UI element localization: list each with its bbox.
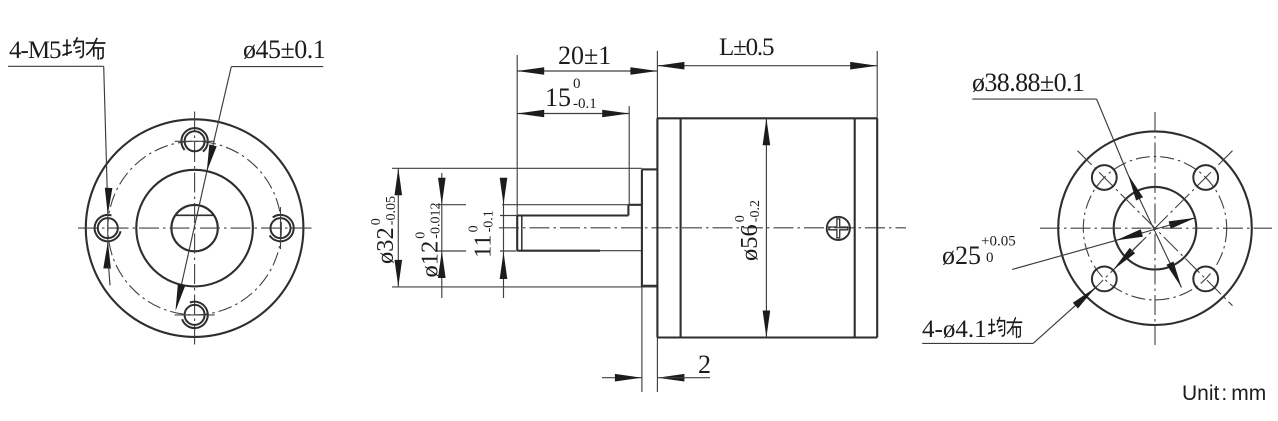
right view diagonal centerline NE-SW: [1078, 151, 1233, 306]
flange-body joint line: [680, 118, 682, 337]
left view pilot boss circle ø32: [136, 170, 253, 287]
label 4-ø4.1 arrow at hole SW edge: [1073, 288, 1096, 309]
left view M5 hole W centermark: [107, 207, 109, 249]
dim ø56 line: [765, 118, 767, 337]
shaft tip end face: [516, 216, 518, 251]
left view bolt circle ø45 (dash-dot): [108, 141, 282, 315]
svg-text:ø25: ø25: [942, 241, 981, 270]
dim 2 right tail: [657, 377, 710, 379]
label ø45 arrow on boss circle: [207, 144, 217, 171]
label 4-ø4.1 leader line: [1033, 288, 1095, 344]
svg-text:15: 15: [545, 83, 571, 112]
body rear joint line: [854, 118, 856, 337]
dim ø12 line: [441, 173, 443, 298]
left view shaft flat chord: [176, 214, 214, 216]
label ø25 text: [942, 234, 1016, 271]
svg-text:ø45±0.1: ø45±0.1: [243, 35, 325, 64]
shaft flat top edge: [517, 214, 628, 216]
dim 15 right arrow: [602, 110, 629, 118]
svg-text:4-ø4.1: 4-ø4.1: [922, 316, 987, 343]
dim L right arrow: [850, 62, 877, 70]
screw head circle: [827, 217, 850, 240]
left view M5 hole S centermark: [175, 314, 215, 316]
right view bolt circle ø38.88 (dash-dot): [1083, 157, 1226, 300]
label 4-M5 leader line: [104, 66, 108, 193]
dim 11 text: [467, 210, 497, 258]
shaft top edge at root: [628, 204, 642, 206]
boss face extension down (for 2 dim): [641, 288, 643, 393]
shaft flat step: [627, 205, 629, 216]
svg-text:0: 0: [467, 225, 482, 232]
left view M5 hole E thread arc: [270, 215, 294, 241]
svg-text:Unit:mm: Unit:mm: [1182, 382, 1266, 405]
left view M5 hole N thread arc: [181, 128, 207, 151]
shaft tip chamfer line: [521, 216, 523, 250]
label ø25 dimension line: [1116, 218, 1196, 241]
svg-text:ø38.88±0.1: ø38.88±0.1: [972, 68, 1084, 97]
screw head phillips cross: [829, 219, 848, 238]
dim ø32 line: [397, 168, 399, 287]
dim 11 line: [503, 178, 505, 298]
left view M5 hole N centermark: [175, 140, 215, 142]
label ø38.88 upper arrow: [1128, 175, 1143, 201]
right view ø4.1 hole NE: [1193, 165, 1218, 190]
dim 15 line: [517, 113, 629, 115]
label ø45 leader underline: [231, 66, 323, 68]
ext line ø12 top short: [436, 204, 466, 206]
flange face extension up: [656, 51, 658, 118]
left view M5 hole S thread arc: [182, 302, 208, 328]
left view vertical centerline: [194, 112, 196, 345]
ext line shaft tip vertical: [516, 55, 518, 216]
left view M5 hole S minor circle: [185, 305, 205, 325]
svg-text:2: 2: [698, 350, 711, 379]
dim 2 left arrow: [615, 374, 642, 382]
label 4-M5 arrow at hole top: [105, 188, 113, 215]
label ø38.88 dimension line: [1128, 175, 1182, 288]
dim ø32 bottom arrow: [395, 260, 403, 287]
svg-text:L±0.5: L±0.5: [719, 34, 774, 61]
dim 15 text: [545, 76, 597, 112]
ext line ø12 bottom short: [436, 250, 466, 252]
label 4-M5 arrow at hole bottom: [103, 242, 111, 269]
dim L left arrow: [657, 62, 684, 70]
dim 2 right arrow: [657, 374, 684, 382]
dim 2 left tail: [602, 377, 642, 379]
dim ø32 top arrow: [395, 168, 403, 195]
label 4-M5 leader underline: [8, 65, 104, 67]
right view bore circle ø25: [1114, 187, 1197, 270]
body bottom edge: [657, 336, 877, 338]
middle view horizontal centerline: [499, 227, 906, 229]
svg-text:-0.2: -0.2: [748, 200, 763, 222]
svg-text:-0.05: -0.05: [384, 196, 399, 225]
svg-text:4-M5: 4-M5: [9, 37, 61, 64]
dim ø12 text: [414, 203, 444, 278]
left view M5 hole N minor circle: [185, 131, 205, 151]
dim ø32 text: [369, 196, 399, 264]
dim ø56 text: [733, 200, 763, 261]
dim 15 left arrow: [517, 110, 544, 118]
svg-text:-0.1: -0.1: [482, 210, 497, 232]
left view M5 hole E centermark: [280, 207, 282, 249]
dim 20±1 left arrow: [517, 67, 544, 75]
boss bottom edge: [642, 285, 658, 287]
label ø25 left arrow: [1116, 229, 1143, 240]
label 4-ø4.1 underline: [922, 342, 1033, 344]
flange front face: [656, 118, 658, 337]
dim ø56 top arrow: [763, 118, 771, 145]
dim 11 bottom arrow: [500, 252, 508, 279]
svg-text:+0.05: +0.05: [981, 234, 1016, 250]
left view M5 hole E minor circle: [271, 218, 291, 238]
label ø45 leader lower segment: [176, 172, 207, 308]
dim ø12 bottom arrow: [438, 251, 446, 278]
right view ø4.1 hole SW: [1092, 267, 1117, 292]
right view horizontal centerline: [1040, 227, 1272, 229]
svg-text:ø12: ø12: [417, 241, 444, 278]
boss top edge: [642, 168, 658, 170]
label ø38.88 underline: [972, 98, 1096, 100]
right view outer circle: [1058, 131, 1252, 325]
svg-text:-0.1: -0.1: [573, 96, 597, 112]
label ø38.88 lower arrow: [1167, 262, 1182, 288]
ext line flat step vertical: [628, 106, 630, 205]
body rear extension up: [876, 51, 878, 118]
dim 11 top arrow: [500, 178, 508, 205]
ext line shaft top long (for 11 dim): [502, 204, 628, 206]
label 4-ø4.1 arrow at hole NE edge: [1113, 248, 1135, 270]
svg-text:20±1: 20±1: [558, 41, 611, 70]
label 4-ø4.1 leader tail beyond arrow: [1130, 242, 1141, 253]
svg-text:0: 0: [986, 250, 994, 266]
left view M5 hole W minor circle: [98, 218, 118, 238]
shaft bottom edge thin part: [600, 250, 642, 252]
left view M5 hole W thread arc: [95, 215, 121, 241]
right view ø4.1 hole SE: [1193, 267, 1218, 292]
label ø38.88 leader segment: [1097, 99, 1128, 174]
right view diagonal centerline NW-SE: [1078, 151, 1233, 306]
left view body outer circle ø56: [86, 119, 304, 337]
shaft bottom edge: [517, 250, 600, 252]
svg-text:0: 0: [414, 232, 429, 239]
left view shaft circle ø12: [171, 205, 217, 251]
boss front face: [641, 169, 643, 287]
label 4-M5 Chinese characters 均布: [63, 38, 105, 59]
label 4-ø4.1 Chinese characters 均布: [989, 317, 1022, 337]
ext line flat level to tip: [500, 215, 517, 217]
label ø45 arrow on bolt circle: [176, 284, 186, 311]
left view horizontal centerline: [78, 227, 312, 229]
dim L±0.5 line: [657, 65, 877, 67]
svg-text:0: 0: [733, 215, 748, 222]
dim ø56 bottom arrow: [763, 311, 771, 338]
dim 20±1 right arrow: [630, 67, 657, 75]
right view vertical centerline: [1154, 112, 1156, 345]
svg-text:-0.012: -0.012: [429, 203, 444, 239]
dim ø12 top arrow: [438, 178, 446, 205]
label ø25 leader tail: [1012, 240, 1116, 269]
label 4-M5 leader tail below hole: [109, 266, 110, 285]
svg-text:11: 11: [470, 234, 497, 258]
label ø45 leader upper segment: [207, 67, 232, 172]
svg-text:0: 0: [369, 218, 384, 225]
ext line ø32 bottom: [392, 286, 657, 288]
svg-text:ø56: ø56: [736, 224, 763, 261]
ext line 11 bottom short: [500, 250, 517, 252]
label ø25 right arrow: [1169, 218, 1196, 229]
svg-text:ø32: ø32: [372, 227, 399, 264]
flange face extension down: [656, 338, 658, 393]
ext line ø32 top: [392, 167, 642, 169]
body top edge: [657, 117, 877, 119]
dim 20±1 line: [517, 70, 657, 72]
right view ø4.1 hole NW: [1092, 165, 1117, 190]
svg-text:0: 0: [573, 76, 581, 92]
body rear face: [876, 118, 878, 337]
